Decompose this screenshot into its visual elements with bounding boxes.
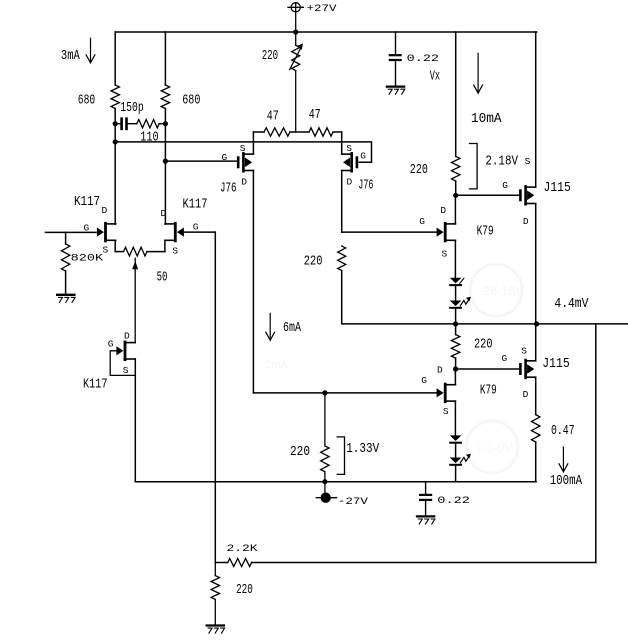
annotation arrow 6mA [266,313,275,340]
transistor Q1 K117 (diff pair left) [97,222,116,242]
label +27V [307,4,338,15]
pin S (Q1) [103,245,109,256]
svg-text:6mA: 6mA [283,321,302,336]
node K79-L drain / J115-L gate [453,366,458,371]
transistor Q4 J76 (left) [237,152,254,172]
pin S (Q7) [442,248,448,259]
pin D (Q6) [523,216,529,227]
svg-text:D: D [102,205,108,216]
wire 2.2K to node [215,562,227,564]
svg-text:820K: 820K [71,253,105,264]
wire Q2 gate to feedback [184,231,215,233]
wire J115-L source up [535,324,537,361]
wire middle 220 to output rail [342,271,628,324]
wire lower-gate 220 top [324,393,326,446]
wire fb 220 top [214,563,216,576]
transistor Q9 K79 (lower) [437,383,456,403]
ground (under feedback 220) [207,626,225,634]
svg-text:680: 680 [182,94,200,109]
svg-text:S: S [172,245,178,256]
capacitor 0.22 (top) [389,32,402,86]
wire K79-U source down [454,240,456,277]
label K79 (Q7) [477,225,494,240]
node branch1/crossover junction [113,139,118,144]
svg-text:G: G [84,223,90,234]
label 150p [120,101,143,116]
transistor Q8 J115 (lower) [519,359,536,379]
wire branch2 lower [164,109,166,225]
transistor Q7 K79 (upper) [437,222,456,242]
diode D2 (upper chain, thermal arrow) [450,297,471,308]
wire rail to 220 (lower) [455,324,457,335]
svg-text:3mA: 3mA [61,49,81,64]
node +27V rail tap [293,29,298,34]
annotation arrow 3mA [86,38,95,63]
svg-text:S: S [103,245,109,256]
svg-text:D: D [440,205,446,216]
wire +27V top rail [115,31,536,33]
pin G (Q6) [502,180,508,191]
svg-text:K79: K79 [480,384,497,399]
pin S (Q8) [521,346,527,357]
pin G (Q8) [502,353,508,364]
resistor 220 (middle) [338,246,346,271]
wire rail to 220 (upper right) [455,32,457,156]
label 0.47 [551,424,575,439]
wire K79-L source down [454,401,456,435]
svg-text:G: G [502,353,508,364]
svg-text:150p: 150p [120,101,143,116]
wire 220 to node (lower) [455,358,457,369]
label 47 (right) [309,108,321,123]
transistor Q5 J76 (right, mirrored) [342,152,359,172]
bracket 2.18V [470,144,478,189]
pin G (Q4) [222,152,228,163]
svg-text:S: S [346,143,352,154]
label 220 (feedback) [236,583,253,598]
label 220 (middle) [304,255,323,270]
wiper arrow of pot 50 [132,258,138,342]
label 220 (upper right) [410,163,428,178]
pin D (Q7) [440,205,446,216]
pin D (Q5) [347,176,353,187]
wire branch2 upper [164,32,166,85]
svg-text:220: 220 [410,163,428,178]
wire fb 220 bottom [214,599,216,624]
pin S (Q2) [172,245,178,256]
svg-text:47: 47 [309,108,321,123]
node K79-U drain / J115-U gate [453,193,458,198]
svg-text:S: S [521,346,527,357]
wire var-res bottom [295,71,297,132]
label 680 (right) [182,94,200,109]
svg-text:J76: J76 [220,182,237,197]
wire feedback right vertical [595,324,597,563]
ground (under top 0.22) [387,87,405,95]
label 1.33V [346,442,380,457]
pin S (Q6 J115 upper) [525,156,531,167]
pin S (Q9) [443,406,449,417]
label 820K [71,253,105,264]
pin D (Q8) [523,389,529,400]
svg-text:47: 47 [267,110,279,125]
wire Q4 drain down [252,171,254,393]
svg-text:100mA: 100mA [550,474,583,489]
wire Q3 gate loop [110,351,135,376]
transistor Q6 J115 (upper) [519,185,536,205]
svg-text:D: D [347,176,353,187]
svg-text:D: D [241,176,247,187]
label -27V [338,497,369,508]
wire branch2 to J76-1 gate [165,160,236,162]
pin D (Q4) [241,176,247,187]
svg-text:220: 220 [262,49,278,64]
svg-text:S: S [442,248,448,259]
ground (under bottom 0.22) [417,516,435,524]
resistor 680 (right) [161,85,169,109]
pin D (Q1) [102,205,108,216]
pin S (Q5) [346,143,352,154]
label 50 [157,270,168,285]
svg-text:1.33V: 1.33V [346,442,380,457]
svg-text:50: 50 [157,270,168,285]
label 220 (variable) [262,49,278,64]
label 110 [140,130,158,145]
wire J115-L drain down [535,377,537,414]
label 2.18V [485,155,518,170]
capacitor 150p [115,117,137,130]
resistor 680 (left) [111,85,119,109]
wire -27V rail [135,481,536,483]
diode D1 (upper chain) [450,278,464,285]
svg-text:K117: K117 [183,197,208,212]
svg-text:G: G [222,152,228,163]
wire 820K bottom [65,271,67,294]
pin G (Q5) [360,151,366,162]
wire K79-U drain up [454,195,456,224]
resistor 220 (upper right) [452,156,460,181]
node lower gate/220 junction [322,390,327,395]
svg-text:0.22: 0.22 [437,496,470,507]
resistor 220 (feedback) [211,576,219,600]
svg-text:D: D [124,331,130,342]
wire D2 to output rail (upper) [455,308,457,324]
resistor 820K [61,244,69,271]
label J76 (Q5) [358,178,373,193]
wire pot left lead [115,251,123,253]
svg-text:220: 220 [474,338,493,353]
label J76 (Q4) [220,182,237,197]
wire J115-U gate [456,194,520,196]
wire Q2 source down [164,240,166,251]
wire Q3 source down to -27V rail [134,359,136,482]
label 6mA [283,321,302,336]
pin G (Q2) [193,222,199,233]
annotation arrow 100mA [559,447,568,472]
resistor 220 (bias, 1.33V) [321,446,329,472]
annotation arrow 10mA [474,53,483,93]
pin S (Q3) [123,365,129,376]
label 100mA [550,474,583,489]
pin G (Q7) [419,216,425,227]
svg-text:10mA: 10mA [471,112,503,127]
label J115 (Q8) [542,357,569,372]
capacitor 0.22 (bottom) [419,482,432,516]
node output/J115 junction [534,321,539,326]
bracket 1.33V [337,437,344,475]
wire 110 to branch2 [159,123,165,125]
wire feedback vertical x=215 [214,232,216,562]
wire 47 row center [290,131,309,133]
svg-text:+27V: +27V [307,4,338,15]
diode D3 (lower chain) [450,435,462,442]
svg-text:D: D [523,216,529,227]
label 680 (left) [78,94,95,109]
svg-text:2.0-0V: 2.0-0V [477,441,512,455]
transistor Q3 K117 (current sink) [116,341,135,361]
wire bias 220 bottom [324,472,326,482]
wire J115-U drain down [535,204,537,324]
pin S (Q4) [240,143,246,154]
svg-text:S: S [123,365,129,376]
svg-text:4.4mV: 4.4mV [554,297,589,312]
wire 220 to node [455,181,457,195]
wire 0.47 to -27V rail [535,442,537,482]
svg-text:Vx: Vx [430,70,440,85]
svg-text:J115: J115 [544,181,571,196]
svg-text:2.18V: 2.18V [485,155,518,170]
wire D1-D2 (upper) [455,285,457,300]
svg-text:-27V: -27V [338,497,369,508]
node branch2/compensation junction [163,121,168,126]
pin D (Q3) [124,331,130,342]
svg-text:220: 220 [236,583,253,598]
svg-text:S: S [240,143,246,154]
pin G (Q9) [421,375,427,386]
pin G (Q1) [84,223,90,234]
wire var-res top [295,32,297,45]
svg-text:S: S [525,156,531,167]
svg-text:2mA: 2mA [265,359,288,371]
svg-text:0.22: 0.22 [407,54,439,65]
label K117 (Q2) [183,197,208,212]
svg-text:G: G [419,216,425,227]
label K79 (Q9) [480,384,497,399]
svg-text:J76: J76 [358,178,373,193]
svg-text:G: G [502,180,508,191]
wire feedback bottom [252,562,596,564]
diode D4 (lower chain, thermal arrow) [450,454,471,465]
transistor Q2 K117 (diff pair right) [165,222,184,242]
wire Q5 source up [341,132,343,154]
wire 820K top [65,232,67,244]
wire K79-U gate [342,231,437,233]
resistor 220 (lower middle) [451,335,459,359]
svg-text:S: S [443,406,449,417]
label 2.2K [227,544,259,555]
node branch1/compensation junction [113,121,118,126]
wire crossover to J76-2 gate [115,142,371,162]
power terminal -27V [316,482,336,503]
svg-text:G: G [108,339,114,350]
node output/diode junction [453,321,458,326]
wire Q1 source down [114,240,116,251]
pin D (Q9) [437,365,443,376]
wire input to K117 Q1 gate [45,231,96,233]
wire J115-L gate [456,368,520,370]
label 220 (lower middle) [474,338,493,353]
arrow of variable resistor [290,43,304,69]
label J115 (Q6) [544,181,571,196]
svg-text:D: D [161,208,167,219]
wire D4 to -27V rail [455,465,457,482]
label 220 (bias) [290,445,310,460]
resistor 2.2K [228,559,252,567]
label 10mA [471,112,503,127]
wire 47 row left lead [253,131,264,133]
wire 47 row right lead [333,131,342,133]
node branch2/J76 gate junction [163,159,168,164]
svg-text:110: 110 [140,130,158,145]
resistor 47 (left) [264,128,290,136]
svg-text:J115: J115 [542,357,569,372]
label K117 (Q1) [74,195,100,210]
wire J115-U source up [535,32,537,187]
svg-text:G: G [421,375,427,386]
svg-text:K79: K79 [477,225,494,240]
svg-text:2.2K: 2.2K [227,544,259,555]
svg-text:D: D [437,365,443,376]
resistor 110 [137,120,159,128]
node bias/-27V rail junction [322,479,327,484]
svg-text:680: 680 [78,94,95,109]
wire K79-L drain up [454,369,456,385]
svg-text:K117: K117 [74,195,100,210]
svg-text:220: 220 [290,445,310,460]
pin G (Q3) [108,339,114,350]
label 0.22 (top) [407,54,439,65]
ground (under 820K) [57,295,75,303]
power terminal +27V [288,3,303,32]
label 47 (left) [267,110,279,125]
wire branch1 lower [114,109,116,225]
svg-text:220: 220 [304,255,323,270]
label Vx [430,70,440,85]
svg-text:G: G [360,151,366,162]
label 4.4mV [554,297,589,312]
resistor 47 (right) [309,128,333,136]
svg-text:D: D [523,389,529,400]
resistor 220 (variable) [292,45,300,70]
svg-text:G: G [193,222,199,233]
label K117 (Q3) [83,377,108,392]
label 3mA [61,49,81,64]
wire branch1 upper [114,32,116,85]
pin D (Q2) [161,208,167,219]
resistor 0.47 [532,415,540,442]
wire D3-D4 (lower) [455,443,457,458]
svg-text:28.18V: 28.18V [483,283,525,298]
resistor 50 (pot) [124,247,148,256]
wire pot right lead [147,251,165,253]
wire Q4 source up [252,132,254,154]
svg-text:0.47: 0.47 [551,424,575,439]
wire Q5 drain down [341,171,343,233]
wire K79-L gate [253,392,436,394]
svg-text:K117: K117 [83,377,108,392]
label 0.22 (bottom) [437,496,470,507]
